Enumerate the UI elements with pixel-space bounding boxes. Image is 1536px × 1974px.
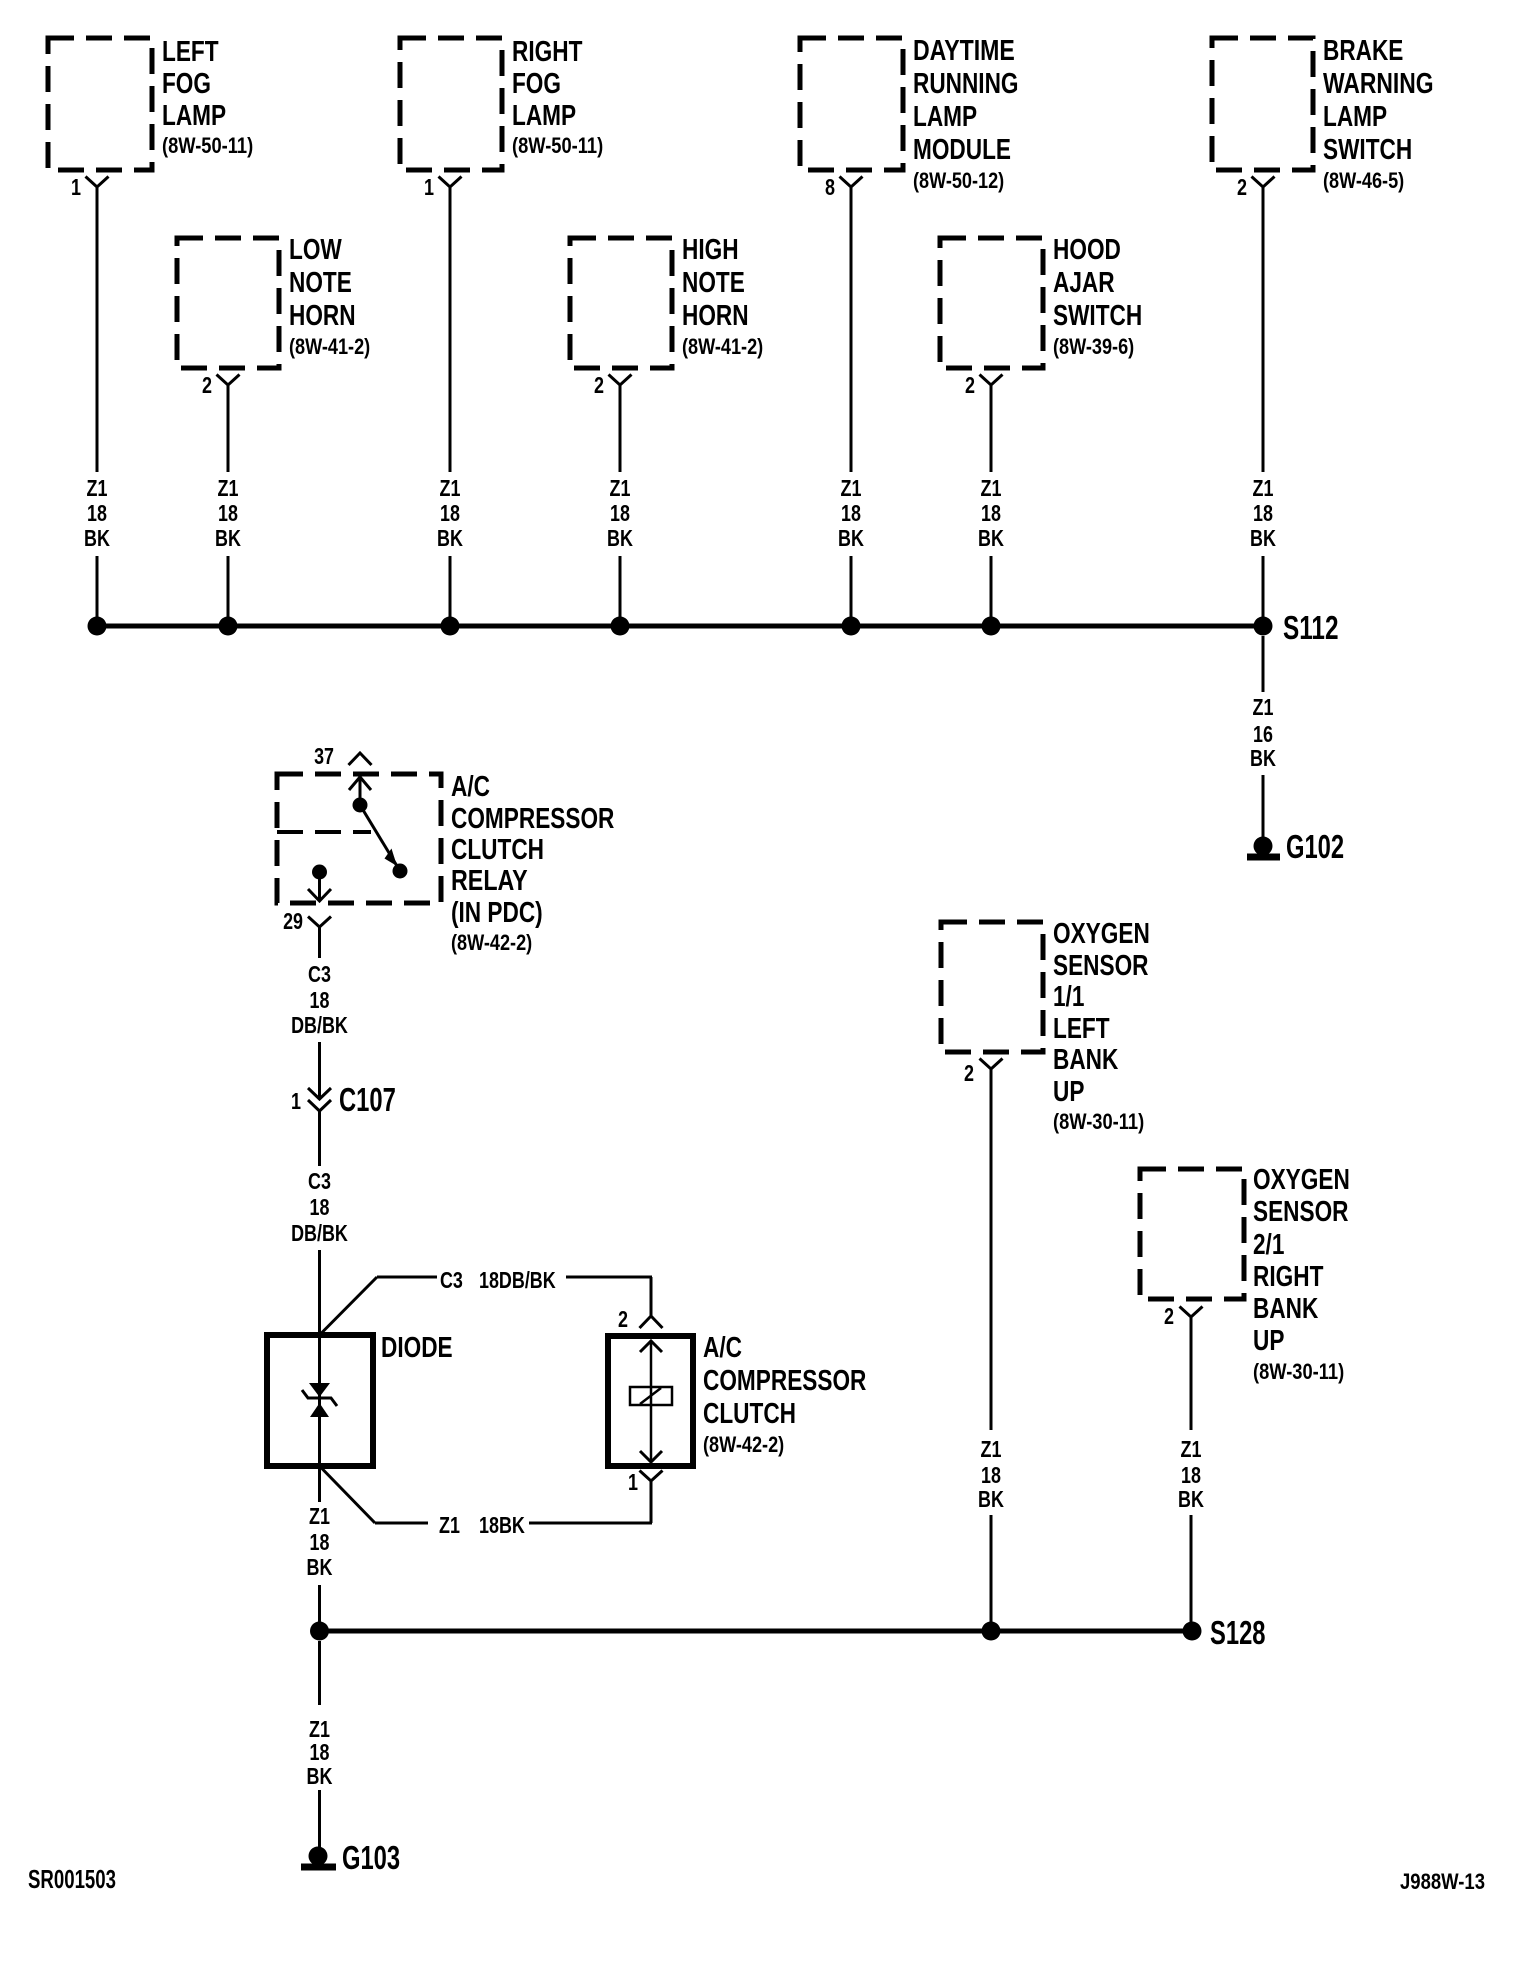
- svg-text:2: 2: [594, 372, 604, 398]
- svg-text:18: 18: [981, 500, 1001, 526]
- svg-text:AJAR: AJAR: [1053, 267, 1115, 299]
- svg-text:18BK: 18BK: [479, 1512, 525, 1538]
- svg-text:DIODE: DIODE: [381, 1332, 453, 1364]
- svg-text:WARNING: WARNING: [1323, 68, 1434, 100]
- svg-text:1/1: 1/1: [1053, 981, 1084, 1013]
- svg-text:G103: G103: [342, 1839, 400, 1876]
- svg-text:(8W-30-11): (8W-30-11): [1253, 1359, 1344, 1384]
- svg-text:UP: UP: [1253, 1325, 1284, 1357]
- svg-text:OXYGEN: OXYGEN: [1053, 918, 1150, 950]
- svg-text:Z1: Z1: [610, 475, 631, 501]
- svg-text:Z1: Z1: [1253, 694, 1274, 720]
- svg-text:(8W-46-5): (8W-46-5): [1323, 168, 1404, 193]
- svg-text:LAMP: LAMP: [1323, 101, 1387, 133]
- svg-text:(8W-42-2): (8W-42-2): [451, 930, 532, 955]
- svg-text:RUNNING: RUNNING: [913, 68, 1019, 100]
- svg-text:LEFT: LEFT: [1053, 1013, 1110, 1045]
- svg-text:BK: BK: [84, 525, 110, 551]
- svg-text:Z1: Z1: [1181, 1436, 1202, 1462]
- svg-text:A/C: A/C: [451, 771, 490, 803]
- svg-text:FOG: FOG: [162, 68, 211, 100]
- svg-text:8: 8: [825, 174, 835, 200]
- svg-text:2: 2: [964, 1060, 974, 1086]
- svg-text:18: 18: [841, 500, 861, 526]
- svg-text:BK: BK: [307, 1763, 333, 1789]
- svg-text:C3: C3: [308, 961, 331, 987]
- svg-text:2: 2: [1237, 174, 1247, 200]
- svg-text:LAMP: LAMP: [162, 100, 226, 132]
- svg-text:37: 37: [314, 743, 334, 769]
- svg-text:FOG: FOG: [512, 68, 561, 100]
- svg-text:(8W-42-2): (8W-42-2): [703, 1432, 784, 1457]
- svg-text:BK: BK: [437, 525, 463, 551]
- svg-text:(8W-50-12): (8W-50-12): [913, 168, 1004, 193]
- svg-text:BK: BK: [838, 525, 864, 551]
- svg-text:Z1: Z1: [981, 475, 1002, 501]
- svg-text:(8W-50-11): (8W-50-11): [512, 133, 603, 158]
- svg-text:16: 16: [1253, 721, 1273, 747]
- svg-text:1: 1: [71, 174, 81, 200]
- svg-text:DB/BK: DB/BK: [291, 1012, 348, 1038]
- svg-text:HORN: HORN: [289, 300, 356, 332]
- svg-text:COMPRESSOR: COMPRESSOR: [703, 1365, 866, 1397]
- svg-text:NOTE: NOTE: [682, 267, 745, 299]
- svg-text:(IN PDC): (IN PDC): [451, 897, 543, 929]
- svg-text:18: 18: [610, 500, 630, 526]
- svg-text:CLUTCH: CLUTCH: [451, 834, 544, 866]
- svg-text:Z1: Z1: [981, 1436, 1002, 1462]
- svg-text:18: 18: [310, 1739, 330, 1765]
- svg-text:BK: BK: [307, 1554, 333, 1580]
- svg-text:CLUTCH: CLUTCH: [703, 1398, 796, 1430]
- svg-text:2: 2: [618, 1306, 628, 1332]
- svg-text:C107: C107: [339, 1081, 396, 1118]
- svg-text:Z1: Z1: [87, 475, 108, 501]
- svg-text:18: 18: [218, 500, 238, 526]
- svg-text:OXYGEN: OXYGEN: [1253, 1164, 1350, 1196]
- svg-text:SWITCH: SWITCH: [1053, 300, 1142, 332]
- svg-text:COMPRESSOR: COMPRESSOR: [451, 803, 614, 835]
- svg-text:BRAKE: BRAKE: [1323, 35, 1403, 67]
- svg-text:18: 18: [310, 1529, 330, 1555]
- svg-text:29: 29: [283, 908, 303, 934]
- svg-text:Z1: Z1: [309, 1503, 330, 1529]
- svg-text:DB/BK: DB/BK: [291, 1220, 348, 1246]
- svg-text:(8W-50-11): (8W-50-11): [162, 133, 253, 158]
- svg-text:18DB/BK: 18DB/BK: [479, 1267, 556, 1293]
- svg-text:BANK: BANK: [1253, 1293, 1318, 1325]
- svg-text:2/1: 2/1: [1253, 1229, 1284, 1261]
- svg-text:Z1: Z1: [439, 1512, 460, 1538]
- svg-text:1: 1: [424, 174, 434, 200]
- svg-text:18: 18: [87, 500, 107, 526]
- svg-text:HORN: HORN: [682, 300, 749, 332]
- svg-text:BANK: BANK: [1053, 1044, 1118, 1076]
- svg-text:S128: S128: [1210, 1614, 1266, 1651]
- svg-text:LAMP: LAMP: [913, 101, 977, 133]
- svg-text:C3: C3: [308, 1168, 331, 1194]
- svg-text:2: 2: [202, 372, 212, 398]
- svg-text:Z1: Z1: [1253, 475, 1274, 501]
- svg-text:UP: UP: [1053, 1076, 1084, 1108]
- svg-text:S112: S112: [1283, 609, 1339, 646]
- svg-text:RIGHT: RIGHT: [512, 36, 583, 68]
- svg-text:RIGHT: RIGHT: [1253, 1261, 1324, 1293]
- svg-text:SWITCH: SWITCH: [1323, 134, 1412, 166]
- svg-text:BK: BK: [607, 525, 633, 551]
- svg-text:(8W-41-2): (8W-41-2): [289, 334, 370, 359]
- svg-text:2: 2: [1164, 1303, 1174, 1329]
- svg-text:18: 18: [981, 1462, 1001, 1488]
- svg-text:HOOD: HOOD: [1053, 234, 1121, 266]
- svg-text:NOTE: NOTE: [289, 267, 352, 299]
- svg-text:18: 18: [1253, 500, 1273, 526]
- svg-text:18: 18: [310, 1194, 330, 1220]
- svg-text:LAMP: LAMP: [512, 100, 576, 132]
- svg-text:BK: BK: [978, 525, 1004, 551]
- svg-text:J988W-13: J988W-13: [1400, 1869, 1485, 1894]
- svg-text:18: 18: [440, 500, 460, 526]
- svg-text:(8W-30-11): (8W-30-11): [1053, 1109, 1144, 1134]
- svg-text:BK: BK: [1250, 745, 1276, 771]
- svg-text:1: 1: [628, 1469, 638, 1495]
- svg-text:SENSOR: SENSOR: [1053, 950, 1149, 982]
- svg-text:A/C: A/C: [703, 1332, 742, 1364]
- svg-text:SR001503: SR001503: [28, 1864, 116, 1894]
- svg-text:18: 18: [310, 987, 330, 1013]
- svg-text:2: 2: [965, 372, 975, 398]
- svg-text:1: 1: [291, 1088, 301, 1114]
- svg-text:DAYTIME: DAYTIME: [913, 35, 1015, 67]
- svg-text:Z1: Z1: [841, 475, 862, 501]
- svg-text:LOW: LOW: [289, 234, 342, 266]
- svg-text:BK: BK: [1178, 1486, 1204, 1512]
- svg-text:Z1: Z1: [440, 475, 461, 501]
- svg-text:18: 18: [1181, 1462, 1201, 1488]
- svg-text:BK: BK: [978, 1486, 1004, 1512]
- svg-text:Z1: Z1: [218, 475, 239, 501]
- svg-text:MODULE: MODULE: [913, 134, 1011, 166]
- svg-text:SENSOR: SENSOR: [1253, 1196, 1349, 1228]
- svg-text:BK: BK: [215, 525, 241, 551]
- svg-text:(8W-39-6): (8W-39-6): [1053, 334, 1134, 359]
- svg-text:G102: G102: [1286, 828, 1344, 865]
- svg-text:LEFT: LEFT: [162, 36, 219, 68]
- svg-text:(8W-41-2): (8W-41-2): [682, 334, 763, 359]
- svg-text:BK: BK: [1250, 525, 1276, 551]
- svg-text:RELAY: RELAY: [451, 865, 528, 897]
- svg-text:C3: C3: [440, 1267, 463, 1293]
- svg-text:HIGH: HIGH: [682, 234, 739, 266]
